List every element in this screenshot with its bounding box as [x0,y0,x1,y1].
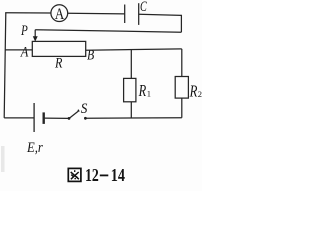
svg-text:C: C [140,0,147,15]
svg-text:R: R [138,81,146,100]
label R1 [138,81,151,100]
capacitor C [125,3,139,25]
wire: rheostat terminal B to top-right node [86,49,182,50]
wire: ammeter to capacitor left plate [68,12,125,15]
ammeter A [51,5,68,23]
switch S [68,109,87,119]
svg-text:E,r: E,r [26,140,43,156]
svg-text:P: P [20,23,28,39]
label R2 [189,81,202,100]
wire: left vertical rail [4,13,6,118]
wire: top-right corner down to slider tap line [180,15,182,32]
svg-text:12: 12 [85,165,99,185]
resistor R1 [124,78,136,101]
wire: slider tap line to arrow P [35,30,181,33]
wire: resistor R1 bottom to bottom rail [130,102,132,118]
svg-text:A: A [20,45,29,61]
wire: left rail to rheostat terminal A [5,49,32,51]
wire: resistor R2 bottom to bottom-right corner [181,98,183,118]
svg-text:R: R [54,56,62,72]
battery E,r [34,103,44,132]
caption 图 12-14 [68,165,125,185]
wire: top-left corner to ammeter [5,12,51,14]
wire: node to resistor R1 top [130,50,132,79]
wire: capacitor right plate to top-right corner [139,14,182,15]
resistor R2 [175,77,188,99]
rheostat R (slide-wire, terminals A and B) [32,41,85,56]
wire: switch to battery positive plate [44,117,68,119]
slider arrow P [33,30,38,42]
svg-text:S: S [81,101,88,117]
wire: bottom rail, right corner to switch [86,117,181,120]
svg-text:A: A [55,6,65,23]
wire: top-right node down to resistor R2 [181,49,183,77]
svg-text:R: R [189,81,198,100]
svg-text:14: 14 [111,165,125,185]
svg-text:1: 1 [147,89,151,99]
svg-text:2: 2 [198,89,202,99]
wire: battery negative plate to bottom-left corner [4,117,34,119]
